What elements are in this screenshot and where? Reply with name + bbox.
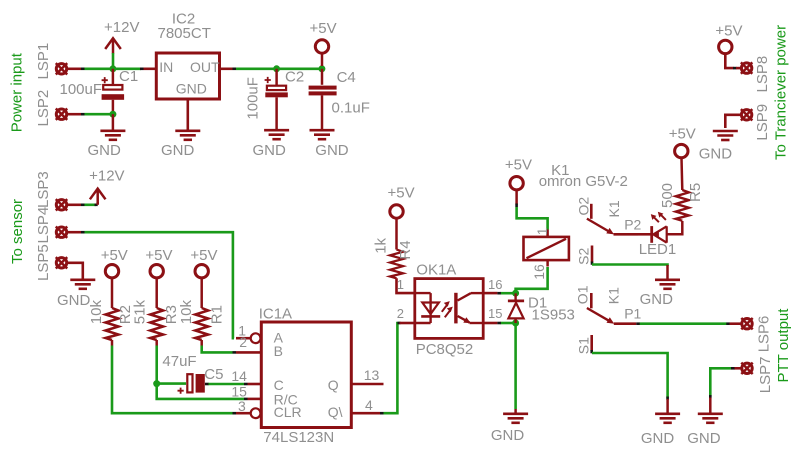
svg-text:+5V: +5V <box>145 247 172 264</box>
pad LSP6 <box>741 318 752 329</box>
pin tick <box>81 204 85 207</box>
junction <box>512 320 519 327</box>
pin tick <box>397 322 400 325</box>
supply +5V for R5 <box>675 144 688 157</box>
svg-text:100uF: 100uF <box>244 77 261 120</box>
svg-text:B: B <box>274 343 283 359</box>
junction <box>109 65 116 72</box>
svg-text:P2: P2 <box>624 217 641 233</box>
svg-text:GND: GND <box>88 142 122 159</box>
wire P2 to LED1 <box>638 233 652 236</box>
relay coil K1 <box>524 230 569 267</box>
resistor R5 <box>676 190 689 221</box>
pad LSP2 <box>56 109 67 120</box>
junction <box>273 65 280 72</box>
svg-text:LSP9: LSP9 <box>754 104 771 141</box>
svg-text:GND: GND <box>491 427 525 444</box>
supply +12V symbol <box>90 189 106 204</box>
junction <box>153 380 160 387</box>
resistor R2 <box>111 278 114 308</box>
svg-text:K1: K1 <box>606 287 622 304</box>
svg-text:O2: O2 <box>575 197 591 216</box>
svg-text:+5V: +5V <box>715 22 742 39</box>
wire IC1A Q\ to OK1A pin 2 <box>384 323 400 413</box>
pin tick <box>726 322 729 325</box>
wire LSP1 to IC2 IN <box>85 68 142 71</box>
svg-text:LSP3: LSP3 <box>35 171 52 208</box>
svg-text:3: 3 <box>238 398 246 414</box>
wire R4 to OK1A pin 1 <box>397 278 415 293</box>
pin tick <box>95 204 98 207</box>
svg-text:16: 16 <box>488 277 502 292</box>
pin tick <box>233 68 237 71</box>
pin tick <box>636 322 639 325</box>
pin tick <box>590 350 593 353</box>
ground at LSP5 <box>70 280 95 289</box>
svg-text:14: 14 <box>231 368 247 384</box>
LED LED1 <box>651 212 667 243</box>
svg-text:C5: C5 <box>204 366 223 383</box>
svg-text:LSP2: LSP2 <box>35 90 52 127</box>
pad LSP4 <box>56 227 67 238</box>
svg-text:LSP8: LSP8 <box>754 56 771 93</box>
wire IC2 OUT to +5V node <box>236 68 322 71</box>
svg-text:LSP4: LSP4 <box>35 207 52 244</box>
wire LSP5 to ground <box>68 263 83 279</box>
svg-text:To sensor: To sensor <box>9 199 26 264</box>
svg-text:R1: R1 <box>209 305 226 324</box>
supply +5V for R1 <box>195 265 208 278</box>
wire OK1A pin 15 to D1 <box>501 322 516 325</box>
svg-text:GND: GND <box>176 80 207 96</box>
wire D1 to ground <box>514 323 517 409</box>
resistor R1 <box>200 278 203 308</box>
supply +5V for R2 <box>105 265 118 278</box>
pad LSP9 <box>741 109 752 120</box>
pin tick <box>205 383 209 386</box>
svg-text:1k: 1k <box>373 237 390 253</box>
svg-text:+5V: +5V <box>505 157 532 174</box>
svg-text:4: 4 <box>365 397 373 413</box>
pin tick <box>380 412 384 415</box>
wire +5V to LSP8 <box>725 54 733 68</box>
svg-text:10k: 10k <box>178 300 195 325</box>
svg-text:51k: 51k <box>131 300 148 325</box>
svg-text:IN: IN <box>159 59 173 75</box>
pin tick <box>497 292 501 295</box>
pad LSP7 <box>741 363 752 374</box>
svg-text:IC1A: IC1A <box>259 306 292 323</box>
svg-text:0.1uF: 0.1uF <box>332 99 370 116</box>
svg-text:Power input: Power input <box>9 52 26 132</box>
svg-text:15: 15 <box>488 306 502 321</box>
supply +5V for LSP8 <box>719 40 732 53</box>
svg-text:2: 2 <box>239 334 247 350</box>
svg-text:1: 1 <box>534 227 550 235</box>
resistor R3 <box>155 278 158 308</box>
svg-text:+5V: +5V <box>190 247 217 264</box>
pin tick <box>731 367 735 370</box>
svg-text:47uF: 47uF <box>162 353 196 370</box>
pad LSP8 <box>741 62 752 73</box>
resistor R4 <box>395 219 398 250</box>
wire +12V to node <box>112 53 115 69</box>
svg-text:C1: C1 <box>119 68 138 85</box>
svg-text:GND: GND <box>641 430 675 447</box>
svg-text:GND: GND <box>687 430 721 447</box>
ground below IC2 <box>175 131 200 140</box>
svg-text:To Tranciever power: To Tranciever power <box>773 25 790 160</box>
ground at LSP9 <box>713 131 738 140</box>
supply +5V symbol <box>315 40 328 53</box>
ground below C4 <box>310 130 335 139</box>
diode D1 1S953 <box>508 293 524 323</box>
pin tick <box>140 68 144 71</box>
svg-text:GND: GND <box>57 292 91 309</box>
capacitor C1 <box>102 69 125 114</box>
svg-text:+5V: +5V <box>388 184 415 201</box>
pin 15 lead <box>248 398 262 401</box>
svg-text:+12V: +12V <box>89 168 124 185</box>
pin tick <box>233 351 237 354</box>
wire C5 to IC1A C pin 14 <box>208 383 244 386</box>
wire R1 to IC1A B <box>202 346 233 353</box>
wire +5V to relay K1 pin 1 <box>517 207 548 230</box>
svg-text:7805CT: 7805CT <box>158 25 211 42</box>
svg-text:GND: GND <box>699 145 733 162</box>
svg-text:omron G5V-2: omron G5V-2 <box>539 173 628 190</box>
svg-text:74LS123N: 74LS123N <box>263 429 334 446</box>
supply +12V symbol <box>105 38 121 53</box>
optocoupler OK1A PC8Q52 <box>400 279 498 339</box>
wire junction to IC1A R/C pin 15 <box>157 384 244 399</box>
svg-text:2: 2 <box>397 306 404 321</box>
wire R3 to C5 junction <box>155 346 158 384</box>
capacitor C5 <box>178 374 205 394</box>
pad LSP3 <box>56 199 67 210</box>
pad LSP5 <box>56 257 67 268</box>
svg-text:O1: O1 <box>575 285 591 304</box>
pin tick <box>244 383 248 386</box>
svg-text:+5V: +5V <box>101 247 128 264</box>
ground below C2 <box>264 130 289 139</box>
pin tick <box>515 204 518 208</box>
wire junction to C5 <box>157 382 186 385</box>
svg-text:LSP1: LSP1 <box>35 43 52 80</box>
capacitor C2 <box>265 69 288 129</box>
wire LSP9 to ground <box>725 115 740 128</box>
svg-text:GND: GND <box>161 142 195 159</box>
supply +5V for relay <box>510 177 523 190</box>
op IC1A 74LS123N <box>236 322 384 428</box>
svg-text:C: C <box>274 377 284 393</box>
svg-text:S1: S1 <box>576 337 592 354</box>
svg-text:GND: GND <box>253 142 287 159</box>
wire contact S1 to ground <box>590 335 593 351</box>
supply +5V for R4 <box>390 205 403 218</box>
wire LSP3 to +12V <box>85 204 97 207</box>
svg-text:C4: C4 <box>337 69 356 86</box>
pin tick <box>81 68 85 71</box>
svg-text:LSP7: LSP7 <box>757 356 774 393</box>
wire S1 net <box>592 353 668 399</box>
wire LED1 to R5 <box>667 221 683 234</box>
pin tick <box>591 262 594 265</box>
svg-text:R5: R5 <box>687 183 704 202</box>
svg-text:+12V: +12V <box>104 19 139 36</box>
pin tick <box>244 398 248 401</box>
pad LSP1 <box>56 63 67 74</box>
ground at S2 <box>655 280 680 289</box>
pin tick <box>709 395 712 398</box>
wire LSP4 to IC1A pin 1 <box>85 232 235 338</box>
op IC2 7805CT regulator <box>144 53 233 130</box>
capacitor C4 <box>309 69 337 129</box>
svg-text:P1: P1 <box>624 305 641 321</box>
svg-text:OK1A: OK1A <box>416 262 456 279</box>
ground below C1 <box>112 114 115 130</box>
svg-text:10k: 10k <box>88 300 105 325</box>
wire OK1A pin 16 to D1 <box>501 292 516 295</box>
pin tick <box>666 397 669 400</box>
pin tick <box>233 412 237 415</box>
junction <box>512 290 519 297</box>
pin tick <box>81 113 85 116</box>
svg-text:LSP5: LSP5 <box>35 244 52 281</box>
svg-text:R4: R4 <box>397 240 414 259</box>
junction <box>109 111 116 118</box>
relay contact K1 O2/P2 <box>587 204 638 235</box>
svg-text:LED1: LED1 <box>639 241 677 258</box>
junction <box>318 65 325 72</box>
pin tick <box>733 67 737 70</box>
svg-text:16: 16 <box>531 264 547 280</box>
wire contact S2 to ground <box>591 246 594 263</box>
svg-text:PC8Q52: PC8Q52 <box>416 341 474 358</box>
wire LSP2 to GND node <box>85 113 113 116</box>
wire K1 pin 16 to D1 node <box>516 267 548 293</box>
svg-text:CLR: CLR <box>274 404 302 420</box>
svg-text:100uF: 100uF <box>60 81 103 98</box>
ground at S1 <box>655 414 680 423</box>
svg-text:500: 500 <box>659 183 676 208</box>
svg-text:S2: S2 <box>575 248 591 265</box>
pin tick <box>497 322 501 325</box>
pin tick <box>81 231 85 234</box>
svg-text:GND: GND <box>315 142 349 159</box>
svg-text:Q: Q <box>328 377 339 393</box>
relay contact K1 O1/P1 <box>587 293 636 324</box>
wire S2 net <box>592 265 668 267</box>
svg-text:C2: C2 <box>285 68 304 85</box>
wire R2 to IC1A CLR <box>112 346 233 414</box>
svg-text:+5V: +5V <box>310 20 337 37</box>
svg-text:1S953: 1S953 <box>532 306 575 323</box>
svg-text:Q\: Q\ <box>328 404 343 420</box>
svg-text:GND: GND <box>640 291 674 308</box>
wire LSP7 to ground <box>710 368 731 397</box>
svg-text:1: 1 <box>397 277 404 292</box>
svg-text:PTT output: PTT output <box>775 308 792 383</box>
wire P1 to LSP6 <box>640 322 727 325</box>
svg-text:+5V: +5V <box>669 126 696 143</box>
svg-text:LSP6: LSP6 <box>756 316 773 353</box>
svg-text:13: 13 <box>364 367 380 383</box>
supply +5V for R3 <box>150 265 163 278</box>
svg-text:K1: K1 <box>606 200 622 217</box>
ground at LSP7 <box>698 414 723 423</box>
pin 14 lead <box>248 383 262 386</box>
ground below D1 <box>503 414 528 423</box>
svg-text:OUT: OUT <box>190 59 220 75</box>
